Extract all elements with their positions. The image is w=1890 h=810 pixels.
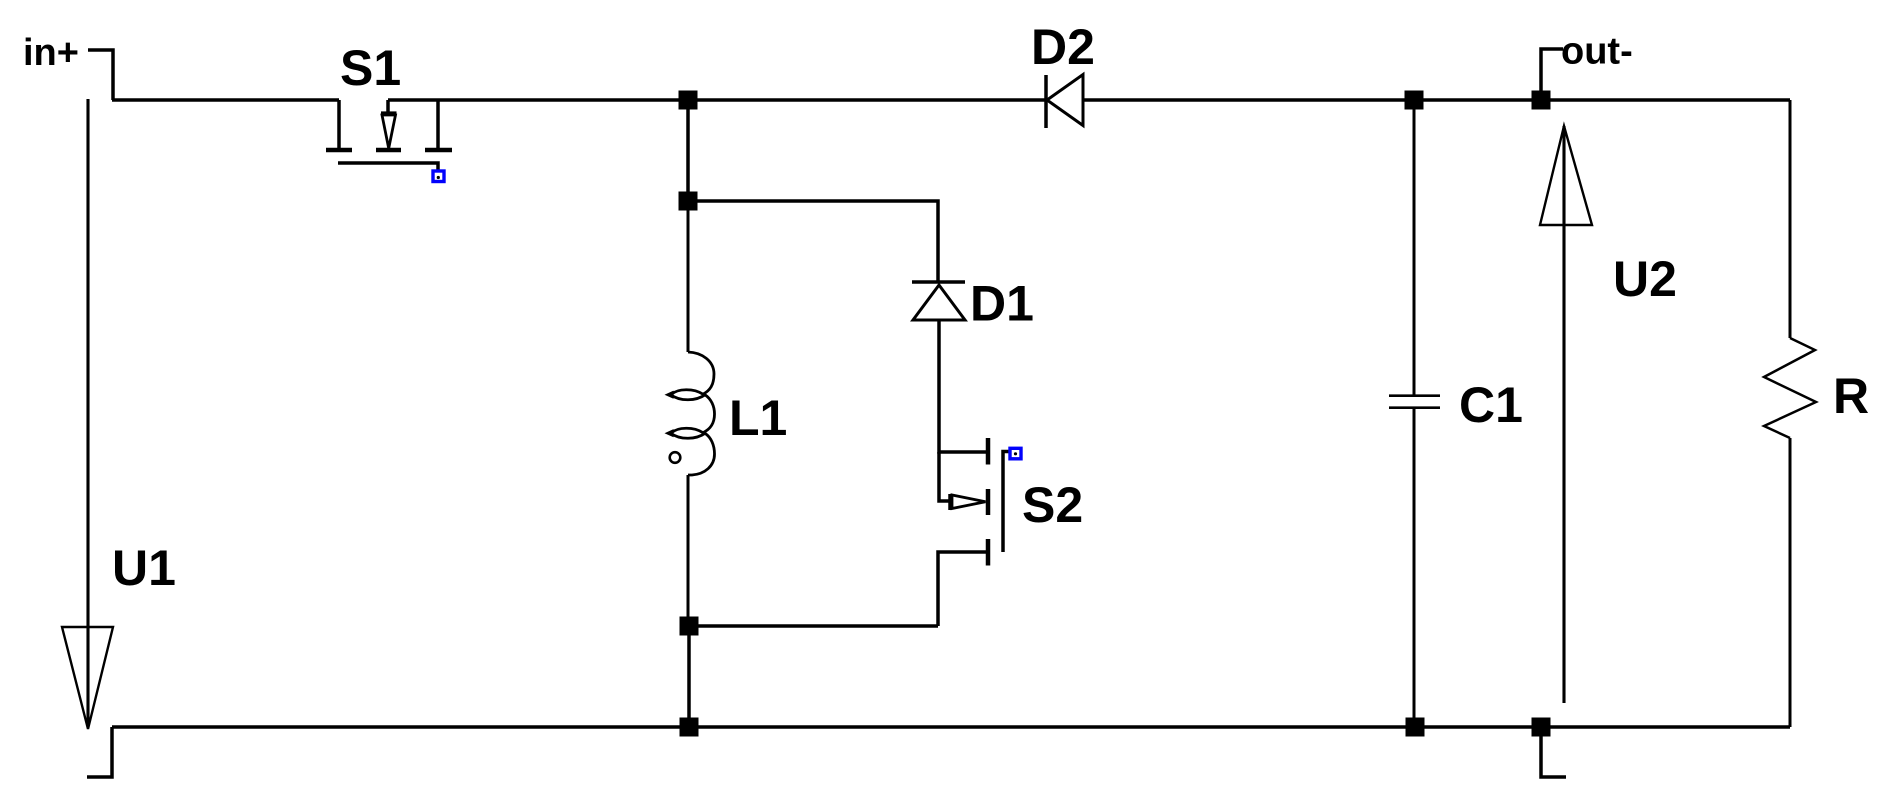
wire top rail left (in+ to S1 drain) — [112, 98, 339, 102]
wire C1 bottom lead — [1413, 409, 1416, 727]
wire switch node down to L1/D1 tap — [686, 100, 690, 201]
inductor L1 — [665, 352, 715, 475]
diode D1 — [912, 282, 965, 320]
gate terminal S2 (blue square) — [1010, 448, 1021, 459]
svg-text:S1: S1 — [340, 40, 401, 96]
svg-text:S2: S2 — [1022, 477, 1083, 533]
node junction (out- bottom) — [1532, 718, 1551, 737]
transistor S2 — [938, 438, 1009, 626]
svg-text:D2: D2 — [1031, 19, 1095, 75]
node junction (bottom rail, L1 branch) — [680, 718, 699, 737]
wire out- stub top — [1541, 49, 1563, 100]
svg-text:D1: D1 — [970, 276, 1034, 332]
voltage arrow U1 — [62, 99, 113, 729]
transistor S1 — [326, 100, 452, 176]
wire bottom-left in- stub — [87, 727, 112, 777]
wire L1 top lead — [687, 201, 690, 352]
capacitor C1 — [1389, 396, 1440, 408]
wire L1 bottom node to bottom rail — [687, 626, 691, 727]
node junction (L1 top / D1 tap) — [679, 192, 698, 211]
wire R bottom lead — [1789, 438, 1792, 727]
svg-text:C1: C1 — [1459, 377, 1523, 433]
diode D2 — [1046, 75, 1083, 129]
wire S2 source to L1 bottom node — [689, 624, 938, 628]
node junction (C1 bottom) — [1406, 718, 1425, 737]
wire L1 bottom lead — [687, 475, 690, 626]
wire C1 top lead — [1413, 100, 1416, 395]
svg-text:R: R — [1833, 368, 1869, 424]
wire bottom rail — [112, 725, 1790, 729]
gate terminal S1 (blue square) — [433, 171, 444, 182]
voltage arrow U2 — [1540, 126, 1592, 703]
node junction (out- top) — [1532, 91, 1551, 110]
svg-text:out-: out- — [1561, 31, 1633, 73]
node junction (L1 bottom / S2 source) — [680, 617, 699, 636]
svg-text:L1: L1 — [729, 390, 787, 446]
svg-text:U2: U2 — [1613, 251, 1677, 307]
wire top rail right (D2 to R corner) — [1083, 98, 1790, 102]
wire D1 anode to S2 drain — [939, 320, 986, 452]
wire top rail middle (S1 source to D2) — [388, 98, 1046, 102]
node junction (C1 top) — [1405, 91, 1424, 110]
wire tap to D1 — [688, 201, 938, 282]
wire R top lead — [1789, 100, 1792, 338]
wire out- stub bottom — [1541, 727, 1566, 777]
wire in+ stub — [88, 50, 113, 100]
svg-text:U1: U1 — [112, 540, 176, 596]
node junction (switch node, top) — [679, 91, 698, 110]
resistor R — [1764, 338, 1816, 438]
svg-text:in+: in+ — [23, 32, 79, 74]
